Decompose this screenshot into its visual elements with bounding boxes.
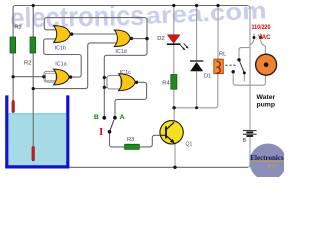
- svg-text:IC1c: IC1c: [120, 70, 131, 76]
- svg-text:B: B: [94, 114, 99, 121]
- svg-text:D2: D2: [157, 36, 164, 42]
- svg-text:R2: R2: [24, 60, 31, 66]
- svg-text:Water: Water: [257, 94, 276, 101]
- svg-text:B: B: [243, 138, 247, 144]
- svg-text:pump: pump: [257, 101, 276, 108]
- svg-text:D1: D1: [204, 74, 211, 80]
- svg-text:110/220: 110/220: [252, 25, 272, 31]
- svg-text:R3: R3: [127, 137, 134, 143]
- svg-text:R1: R1: [14, 25, 21, 31]
- svg-text:Q1: Q1: [186, 142, 193, 148]
- svg-text:A: A: [120, 114, 125, 121]
- svg-text:R4: R4: [162, 80, 170, 86]
- svg-text:Area: Area: [266, 165, 277, 170]
- svg-text:I: I: [99, 127, 103, 138]
- svg-text:IC1d: IC1d: [115, 49, 126, 55]
- svg-text:VAC: VAC: [258, 34, 271, 41]
- svg-text:IC1b: IC1b: [55, 46, 66, 52]
- svg-text:RL: RL: [219, 51, 227, 57]
- svg-text:IC1a: IC1a: [55, 61, 66, 67]
